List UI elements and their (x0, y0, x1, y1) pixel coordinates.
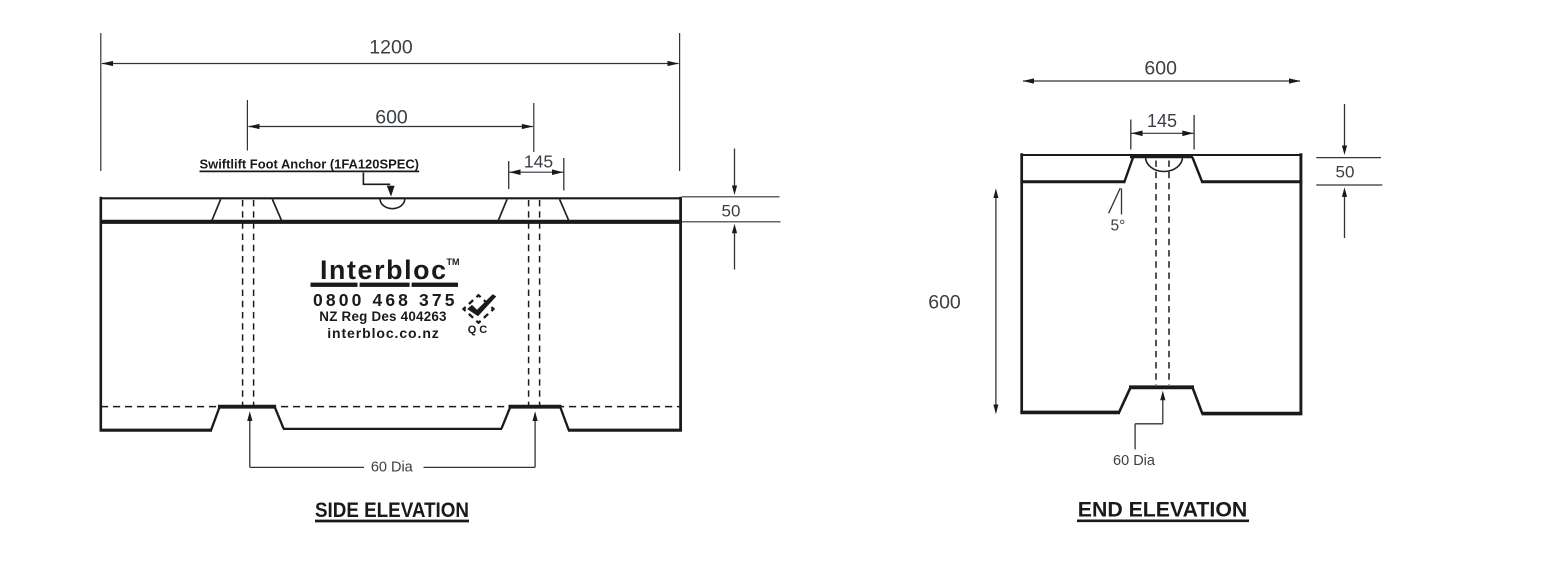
svg-text:60 Dia: 60 Dia (1113, 453, 1156, 469)
end block top edge (1020, 154, 1302, 156)
svg-text:50: 50 (722, 201, 741, 220)
dim 600 line (side) (249, 126, 533, 128)
end notch top thick segment (1130, 154, 1193, 158)
side block bottom profile left segment (100, 429, 213, 432)
dim 1200 extension lines (100, 33, 102, 171)
end bottom edge left (1020, 411, 1120, 415)
swiftlift anchor recess semicircle (side) (380, 199, 405, 209)
end bottom edge right (1202, 412, 1303, 416)
dim 50 up arrow (side) (734, 232, 736, 270)
foot 1 flat top (218, 405, 276, 409)
logo underline bars (311, 283, 358, 287)
QC mark check (467, 294, 496, 316)
svg-text:QC: QC (468, 324, 491, 336)
dim 600 left (end) vertical (995, 196, 997, 406)
hole centreline dashes left pair (242, 200, 244, 405)
top nib recess trapezoid left (212, 199, 221, 220)
end foot flat top (1129, 385, 1194, 389)
side block top band line (100, 220, 682, 224)
end anchor recess semicircle (1146, 157, 1183, 172)
svg-text:5°: 5° (1110, 218, 1125, 235)
svg-text:50: 50 (1336, 162, 1355, 181)
svg-text:TM: TM (447, 257, 460, 267)
svg-text:END ELEVATION: END ELEVATION (1078, 497, 1248, 521)
svg-text:NZ Reg Des 404263: NZ Reg Des 404263 (319, 309, 446, 324)
end hole dashes (1155, 161, 1157, 386)
side block left edge (100, 197, 103, 431)
end foot slant right (1193, 387, 1203, 413)
svg-text:SIDE ELEVATION: SIDE ELEVATION (315, 498, 469, 522)
end foot slant left (1119, 387, 1131, 412)
side block top edge (100, 197, 682, 199)
end band line right part (1201, 180, 1302, 183)
side block bottom profile right segment (568, 429, 682, 432)
foot slant left-inner (275, 406, 284, 428)
svg-text:600: 600 (375, 107, 408, 129)
dim 50 down arrow (end) (1344, 104, 1346, 148)
end notch slant right (1193, 158, 1203, 182)
dim 1200 line (102, 63, 679, 65)
dim 145 line (end) (1131, 132, 1194, 134)
dim 60 Dia (end) leader (1160, 391, 1165, 401)
foot slant left-outer (211, 406, 220, 430)
svg-text:interbloc.co.nz: interbloc.co.nz (327, 325, 439, 341)
hole centreline dashes right pair (528, 200, 530, 405)
svg-text:1200: 1200 (369, 37, 413, 59)
bottom hidden dashed line (side) (101, 406, 680, 408)
dim 50 lines (side right) (682, 196, 780, 198)
foot slant right-outer (560, 406, 569, 430)
dim 60 Dia (side) leader left arrow (247, 411, 252, 421)
end band line left part (1020, 180, 1125, 183)
svg-text:Interbloc: Interbloc (320, 255, 447, 285)
top nib recess trapezoid right (498, 199, 507, 220)
swiftlift leader (363, 173, 390, 185)
5 degree angle lines (1109, 188, 1121, 213)
dim 50 lines (end right) (1316, 157, 1381, 159)
dim 145 extension lines (side) (508, 161, 510, 189)
dim 50 down arrow (side) (734, 149, 736, 189)
svg-text:145: 145 (1147, 111, 1177, 131)
foot 2 flat top (509, 405, 562, 409)
recess bottom line between feet (283, 428, 502, 430)
end block left edge (1020, 153, 1023, 413)
end block right edge (1299, 153, 1302, 415)
side block right edge (679, 197, 682, 431)
foot slant right-inner (502, 406, 511, 428)
svg-text:600: 600 (928, 292, 961, 314)
end notch slant left (1125, 158, 1134, 182)
dim 600 top (end) (1023, 80, 1300, 82)
dim 60 Dia (side) leader right arrow (424, 466, 536, 468)
svg-text:Swiftlift Foot Anchor (1FA120S: Swiftlift Foot Anchor (1FA120SPEC) (200, 157, 420, 172)
dim 145 (end) extension lines (1130, 120, 1132, 150)
dim 50 up arrow (end) (1344, 195, 1346, 238)
svg-text:145: 145 (524, 152, 553, 172)
QC mark diamond (464, 295, 494, 323)
dim 600 extension lines (side) (246, 100, 248, 151)
dim 145 line (side) (509, 171, 564, 173)
svg-text:60 Dia: 60 Dia (371, 460, 414, 476)
svg-text:600: 600 (1144, 58, 1177, 80)
